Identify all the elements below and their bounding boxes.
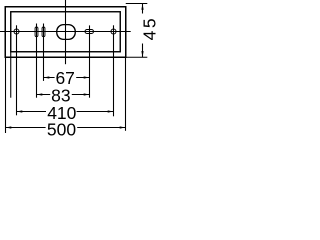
svg-text:500: 500 [47,119,76,139]
svg-text:45: 45 [140,16,160,40]
